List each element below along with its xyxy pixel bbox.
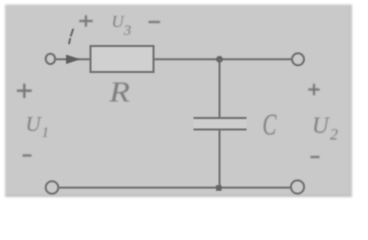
terminal output bottom xyxy=(291,180,304,193)
label R xyxy=(108,76,130,108)
resistor R xyxy=(91,46,154,72)
terminal input top xyxy=(46,54,55,64)
wire: junction down to capacitor xyxy=(219,59,221,117)
svg-text:U: U xyxy=(312,113,330,138)
label + (U1) xyxy=(17,84,32,98)
label I xyxy=(69,29,73,45)
label minus (U1) xyxy=(23,154,32,156)
label C xyxy=(263,108,277,142)
terminal input bottom xyxy=(46,181,59,194)
svg-text:1: 1 xyxy=(42,125,50,141)
capacitor C plates xyxy=(194,119,247,129)
svg-text:2: 2 xyxy=(330,126,338,143)
terminal output top xyxy=(292,53,304,65)
svg-text:R: R xyxy=(108,76,130,108)
svg-text:3: 3 xyxy=(123,23,132,39)
label + (U3 left) xyxy=(79,15,93,26)
label minus (U2) xyxy=(311,156,320,158)
background panel xyxy=(5,5,352,198)
wire: capacitor down to bottom xyxy=(219,130,221,188)
current arrow I xyxy=(66,55,81,64)
svg-text:U: U xyxy=(26,112,43,136)
node junction bottom xyxy=(216,185,222,191)
wire: left terminal to resistor xyxy=(56,58,91,60)
node junction top xyxy=(216,56,223,63)
svg-text:C: C xyxy=(263,108,277,142)
label minus (U3 right) xyxy=(149,21,161,23)
bottom wire xyxy=(59,187,292,189)
wire: resistor to output terminal xyxy=(154,58,292,60)
label + (U2) xyxy=(308,84,319,95)
